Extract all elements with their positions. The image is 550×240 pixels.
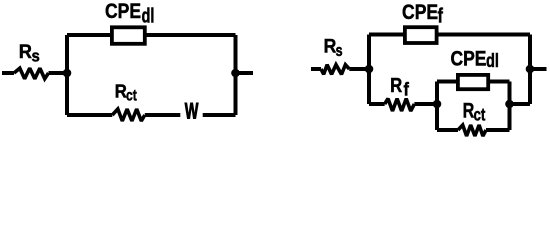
wire right vertical branch bbox=[234, 35, 238, 115]
resistor R5 Rct (inner) bbox=[458, 125, 486, 136]
wire Warburg to right branch bbox=[203, 113, 236, 117]
svg-text:dl: dl bbox=[486, 51, 499, 72]
node A junction dot bbox=[63, 69, 72, 78]
resistor R2 Rct (left circuit) bbox=[112, 109, 145, 121]
node E junction dot bbox=[505, 100, 514, 109]
wire inner top branch bbox=[437, 80, 510, 84]
node F junction dot bbox=[526, 65, 535, 74]
svg-text:ct: ct bbox=[126, 87, 137, 105]
wire outer right vertical bbox=[528, 35, 532, 105]
resistor R3 Rs (right circuit) bbox=[321, 65, 349, 75]
node D junction dot bbox=[433, 100, 442, 109]
svg-text:W: W bbox=[185, 99, 199, 124]
wire Rs to node A bbox=[49, 71, 68, 75]
wire left vertical branch bbox=[65, 35, 69, 115]
wire inner right vertical bbox=[508, 82, 512, 131]
wire inner left vertical bbox=[435, 82, 439, 131]
wire left input bbox=[2, 71, 14, 75]
svg-text:R: R bbox=[115, 82, 127, 102]
svg-text:f: f bbox=[404, 79, 410, 100]
wire top rail right circuit bbox=[369, 33, 530, 37]
svg-text:CPE: CPE bbox=[402, 0, 438, 24]
wire outer left vertical bbox=[367, 35, 371, 105]
wire Rf branch from left vertical bbox=[369, 102, 385, 106]
capacitor CPEf box bbox=[405, 27, 437, 43]
wire top rail left circuit bbox=[67, 33, 236, 37]
svg-text:ct: ct bbox=[474, 105, 486, 125]
wire Rs to node C bbox=[349, 67, 369, 71]
svg-text:R: R bbox=[390, 75, 402, 97]
wire right output bbox=[530, 67, 547, 71]
wire Rct to inner right vertical bbox=[486, 128, 510, 132]
wire Rf to inner node D bbox=[414, 102, 437, 106]
wire right output bbox=[236, 71, 254, 75]
svg-text:CPE: CPE bbox=[105, 0, 141, 23]
wire bottom rail segment to Rct bbox=[67, 113, 112, 117]
capacitor CPEdl box (inner) bbox=[458, 75, 488, 89]
node C junction dot bbox=[365, 65, 374, 74]
node B junction dot bbox=[231, 69, 240, 78]
resistor R1 Rs (left circuit) bbox=[14, 68, 49, 79]
wire Rct to Warburg bbox=[145, 113, 181, 117]
svg-text:dl: dl bbox=[142, 6, 155, 28]
svg-text:f: f bbox=[438, 6, 444, 28]
svg-text:s: s bbox=[32, 47, 40, 66]
capacitor CPEdl box (left circuit) bbox=[112, 27, 145, 44]
svg-text:s: s bbox=[336, 41, 343, 60]
wire right input bbox=[311, 67, 321, 71]
wire inner node E to outer right vertical bbox=[510, 102, 531, 106]
svg-text:CPE: CPE bbox=[451, 48, 487, 71]
wire inner bottom branch to Rct bbox=[437, 128, 458, 132]
svg-text:R: R bbox=[19, 41, 32, 63]
resistor R4 Rf bbox=[385, 99, 415, 111]
